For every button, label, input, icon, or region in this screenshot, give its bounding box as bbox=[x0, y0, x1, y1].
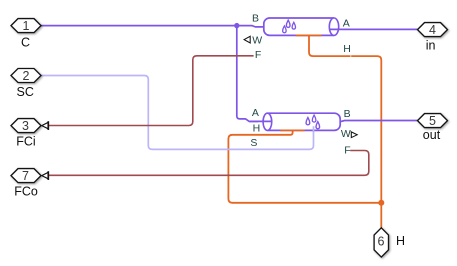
svg-text:F: F bbox=[344, 144, 350, 156]
svg-text:H: H bbox=[396, 234, 405, 248]
droplet 2 of P1 bbox=[283, 26, 287, 33]
svg-text:W: W bbox=[252, 35, 262, 47]
pipe P2 orange heat segment on bottom edge bbox=[280, 129, 305, 131]
wire H branch (orange) from junction to pipe P2 port H bbox=[228, 130, 381, 203]
pipe P1 orange heat segment on bottom edge bbox=[296, 34, 322, 36]
svg-text:A: A bbox=[252, 107, 259, 119]
droplet 1 of P1 bbox=[286, 20, 290, 27]
port 3 input arrowhead bbox=[42, 122, 48, 128]
wire A (violet) from pipe P1 to port 4, with tick through ellipse bbox=[329, 28, 417, 30]
svg-text:W: W bbox=[341, 128, 351, 140]
svg-text:B: B bbox=[252, 13, 259, 25]
wire A into P2 left ellipse (tick) bbox=[249, 120, 271, 122]
label W of pipe P1 with left arrow bbox=[244, 36, 250, 43]
pipe P1 right ellipse end bbox=[329, 18, 338, 35]
svg-text:B: B bbox=[344, 108, 351, 120]
pipe block P1 (two-phase pipe, droplets icon) bbox=[264, 18, 339, 35]
svg-text:out: out bbox=[423, 128, 441, 142]
wire FCo (dark red) from port 7 to pipe P2 port F bbox=[48, 151, 369, 176]
light break on H wire at label box edge bbox=[350, 55, 351, 57]
svg-text:7: 7 bbox=[22, 169, 29, 183]
wire S tick into pipe P2 bottom bbox=[313, 126, 315, 131]
wire B (violet) from pipe P2 to port 5 bbox=[340, 121, 417, 122]
svg-text:4: 4 bbox=[429, 23, 436, 37]
svg-text:3: 3 bbox=[22, 119, 29, 133]
droplet 1 of P2 bbox=[306, 118, 310, 125]
svg-text:S: S bbox=[250, 137, 257, 149]
svg-text:SC: SC bbox=[17, 85, 34, 99]
wire C branch (violet) down to pipe P2 port A bbox=[237, 26, 258, 122]
droplet 3 of P2 bbox=[316, 122, 320, 129]
junction dot on C wire bbox=[234, 23, 239, 28]
port 7 input arrowhead bbox=[42, 172, 48, 178]
svg-text:6: 6 bbox=[378, 234, 385, 248]
svg-text:A: A bbox=[343, 17, 350, 29]
svg-text:H: H bbox=[253, 122, 261, 134]
svg-text:5: 5 bbox=[429, 114, 436, 128]
svg-text:1: 1 bbox=[23, 19, 30, 33]
droplet 2 of P2 bbox=[312, 115, 316, 122]
wire C main (violet) from port 1 to pipe P1 port B bbox=[41, 26, 264, 27]
port 6 hexagon (vertical) bbox=[374, 228, 388, 257]
wire H (orange) from pipe P1 port H down to port 6 bbox=[309, 36, 381, 228]
svg-text:C: C bbox=[21, 35, 30, 49]
pipe P2 left ellipse end bbox=[263, 113, 272, 130]
wire SC (lavender) from port 2 to pipe P2 port S bbox=[41, 76, 314, 150]
svg-text:H: H bbox=[343, 43, 351, 55]
svg-text:FCi: FCi bbox=[16, 134, 35, 148]
port 2 hexagon bbox=[11, 69, 41, 83]
droplet 3 of P1 bbox=[292, 22, 295, 29]
port 5 hexagon bbox=[418, 114, 448, 128]
svg-text:2: 2 bbox=[23, 69, 30, 83]
pipe block P2 (two-phase pipe, droplets icon) bbox=[263, 113, 340, 130]
port 7 hexagon bbox=[11, 169, 41, 183]
port 4 hexagon bbox=[418, 23, 448, 37]
svg-text:in: in bbox=[426, 39, 436, 53]
junction dot on H wire bbox=[378, 200, 384, 206]
svg-text:F: F bbox=[255, 49, 261, 61]
wire FCi (dark red) from port 3 to pipe P1 port F bbox=[48, 56, 253, 126]
port 3 hexagon bbox=[11, 119, 41, 133]
svg-text:FCo: FCo bbox=[14, 184, 38, 198]
port 1 hexagon bbox=[11, 19, 41, 33]
